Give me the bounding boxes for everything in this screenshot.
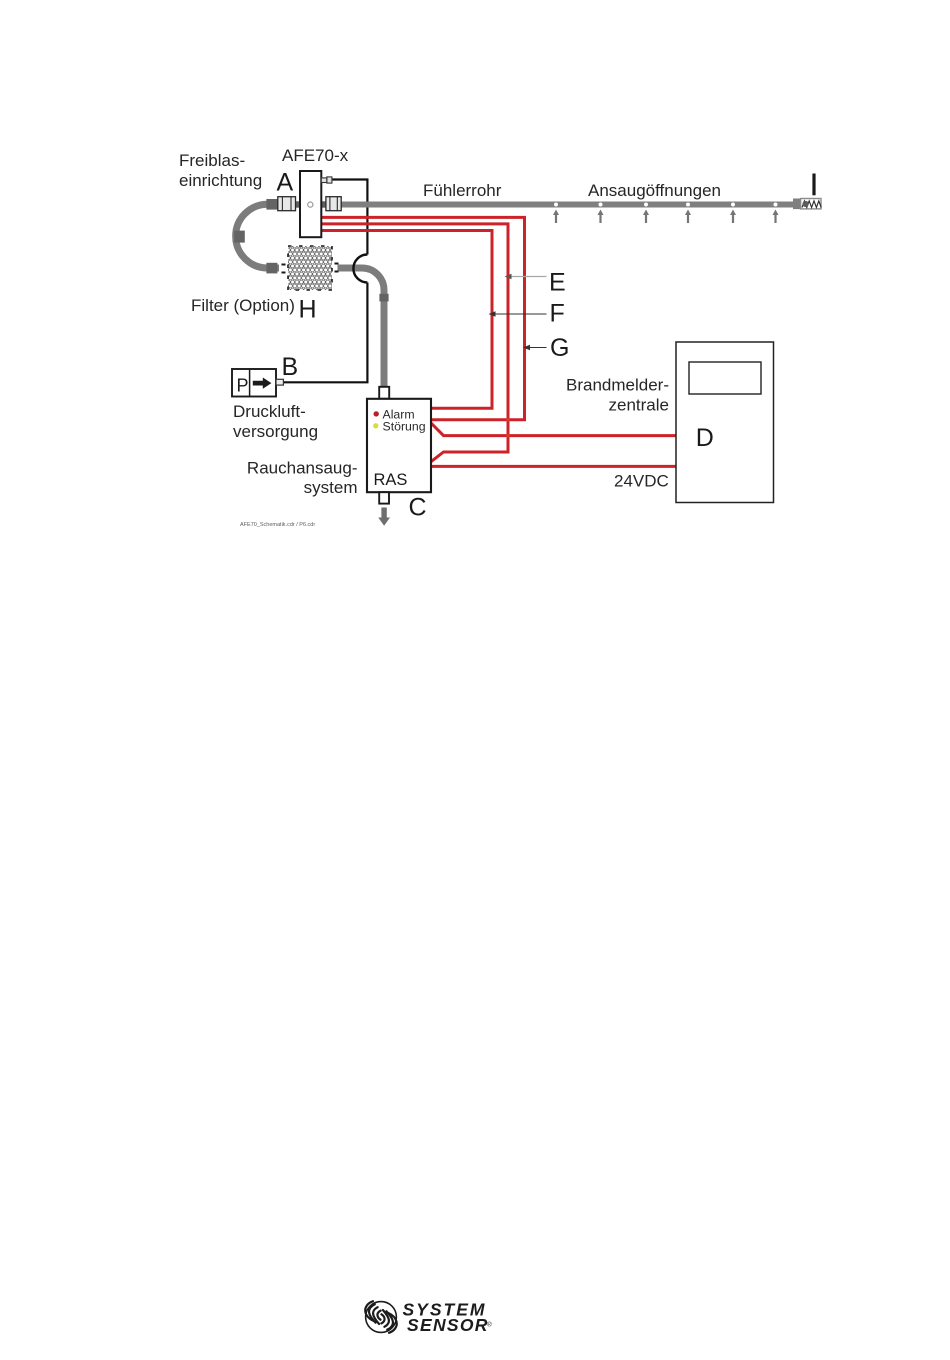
svg-text:Rauchansaug-: Rauchansaug-	[247, 459, 358, 478]
svg-text:D: D	[696, 424, 714, 452]
LED störung (yellow)	[373, 423, 378, 428]
svg-text:Fühlerrohr: Fühlerrohr	[423, 181, 502, 200]
connector: tube to RAS inlet	[379, 387, 389, 399]
sampling holes on tube	[554, 203, 778, 207]
red wire: RAS alarm output to Brandmelderzentrale	[431, 423, 676, 436]
junction dots on vertical x=508	[506, 418, 509, 421]
svg-text:Störung: Störung	[383, 420, 426, 434]
fitting: right union coupling	[326, 197, 341, 211]
red wire F: AFE70 bottom signal line to RAS (inner, x=492)	[321, 231, 492, 409]
svg-text:H: H	[299, 296, 317, 324]
freiblas arc tube (U-bend from AFE70 left port to filter)	[236, 204, 279, 268]
connector: RAS outlet	[379, 492, 389, 503]
svg-text:AFE70_Schematik.cdr / P6.cdr: AFE70_Schematik.cdr / P6.cdr	[240, 522, 315, 528]
svg-text:system: system	[304, 478, 358, 497]
svg-text:SENSOR: SENSOR	[407, 1315, 489, 1335]
svg-text:Druckluft-: Druckluft-	[233, 402, 306, 421]
Fühlerrohr sampling tube	[341, 202, 794, 208]
letter I	[812, 174, 815, 196]
end cap I: screen cap with zigzag	[801, 199, 822, 209]
dash: tube joint right of filter	[335, 263, 339, 265]
svg-text:zentrale: zentrale	[609, 396, 669, 415]
P box: compressed air source	[232, 369, 276, 397]
hop: black wire jumps over grey tube	[353, 255, 367, 283]
svg-text:A: A	[277, 169, 294, 197]
red wire: 24VDC supply from Brandmelderzentrale to RAS	[431, 465, 676, 468]
svg-text:F: F	[550, 300, 565, 328]
svg-text:Filter (Option): Filter (Option)	[191, 296, 295, 315]
svg-text:AFE70-x: AFE70-x	[282, 146, 349, 165]
svg-text:P: P	[237, 376, 249, 396]
exhaust arrow	[378, 508, 390, 526]
filter H: mesh square with dashed border	[282, 246, 339, 290]
svg-text:E: E	[549, 269, 566, 297]
LED alarm (red)	[374, 411, 379, 416]
tube: filter to RAS inlet (with 90° bend)	[338, 268, 385, 391]
svg-text:®: ®	[487, 1321, 492, 1329]
intake arrows under tube	[553, 210, 779, 224]
Brandmelderzentrale box (D)	[676, 342, 774, 503]
svg-text:B: B	[282, 353, 299, 381]
nozzle on AFE70 top right	[321, 177, 332, 183]
wire: black pneumatic control line from AFE70 nozzle down to P-box	[284, 180, 368, 383]
svg-text:Brandmelder-: Brandmelder-	[566, 376, 669, 395]
dash: tube joint left of filter	[282, 264, 286, 266]
logo globe	[365, 1301, 397, 1333]
AFE70 device body (A)	[296, 171, 326, 237]
red wire E: AFE70 middle signal line to RAS (x=508)	[321, 224, 508, 462]
fitting: left union coupling	[278, 197, 296, 211]
svg-text:einrichtung: einrichtung	[179, 171, 262, 190]
svg-text:24VDC: 24VDC	[614, 472, 669, 491]
nozzle on P box	[276, 379, 283, 385]
collar left of arc	[234, 231, 245, 243]
svg-text:G: G	[550, 334, 569, 362]
RAS box (Rauchansaugsystem C)	[367, 399, 431, 492]
collar on down tube	[379, 294, 388, 302]
leader line F	[489, 311, 547, 316]
svg-text:Ansaugöffnungen: Ansaugöffnungen	[588, 181, 721, 200]
collar bottom of arc	[266, 263, 277, 274]
red wire G: AFE70 top signal line to RAS (outer, x=524.5)	[321, 217, 525, 419]
svg-text:C: C	[409, 494, 427, 522]
svg-text:versorgung: versorgung	[233, 422, 318, 441]
end cap I: widened fitting	[793, 199, 801, 210]
System Sensor logo	[365, 1299, 492, 1335]
collar top of arc	[266, 199, 277, 210]
svg-text:RAS: RAS	[374, 471, 408, 489]
leader line G	[523, 345, 547, 350]
svg-text:Freiblas-: Freiblas-	[179, 151, 245, 170]
leader line E	[505, 274, 547, 279]
